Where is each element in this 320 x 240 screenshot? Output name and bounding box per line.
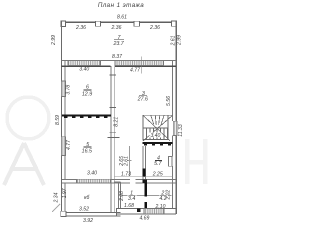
svg-text:3.52: 3.52 <box>79 206 89 212</box>
wall kb|room1 extra lines <box>114 182 120 208</box>
dashed wall below stair <box>143 142 173 145</box>
svg-text:2.02: 2.02 <box>166 190 172 201</box>
wall A below room 7 <box>62 60 177 66</box>
room 1 label <box>128 190 137 203</box>
svg-text:2.61: 2.61 <box>170 35 176 46</box>
corner pier bottom-left <box>61 211 66 216</box>
svg-text:3.40: 3.40 <box>87 170 97 176</box>
svg-text:2.34: 2.34 <box>54 192 60 203</box>
window left wall room 5 <box>61 137 65 156</box>
watermark circle <box>7 97 49 139</box>
corridor horizontal dim line <box>114 176 172 178</box>
stair dimension 3.40 <box>149 133 161 139</box>
svg-text:1.97: 1.97 <box>62 188 68 198</box>
room 5 label <box>82 142 92 154</box>
window band wall A left <box>68 61 101 66</box>
right wall inner line <box>172 60 174 208</box>
window left wall room 6 <box>61 81 65 97</box>
svg-text:2.36: 2.36 <box>75 25 86 31</box>
dashed wall rooms 6|5 <box>62 115 111 118</box>
corner pier top-right <box>172 21 177 26</box>
rooms 1-2 dim line <box>120 195 171 197</box>
right wall outer line <box>175 21 177 214</box>
svg-text:16.5: 16.5 <box>82 148 92 154</box>
staircase <box>143 115 173 141</box>
corridor right wall <box>143 146 146 180</box>
left wall inner line <box>64 60 66 211</box>
extension line at 4.77 <box>140 57 142 74</box>
svg-text:2.36: 2.36 <box>111 25 122 31</box>
black wall rooms 1|2 <box>144 183 147 209</box>
room 4 label <box>154 156 162 167</box>
svg-text:6: 6 <box>86 84 89 90</box>
watermark letter H <box>187 139 205 184</box>
svg-text:План 1 этажа: План 1 этажа <box>98 2 144 9</box>
svg-text:8.37: 8.37 <box>112 54 122 60</box>
svg-text:2.36: 2.36 <box>149 25 160 31</box>
svg-text:4.77: 4.77 <box>66 140 72 150</box>
room 2 label <box>159 190 168 203</box>
door leaf black <box>142 169 145 177</box>
window W1 top wall <box>96 21 101 26</box>
black segment near corridor wall <box>143 179 147 183</box>
window W2 top wall <box>134 21 139 26</box>
wall B ticks <box>108 75 120 138</box>
room 3 label <box>137 91 148 103</box>
left wall outer line <box>61 21 63 212</box>
room 6 label <box>82 84 92 97</box>
svg-text:27.6: 27.6 <box>137 97 148 103</box>
window band bottom wall <box>144 209 164 214</box>
corner pier top-left <box>61 21 66 26</box>
svg-text:2.61: 2.61 <box>124 156 130 167</box>
dim diagonal tick bottom-left <box>52 204 60 212</box>
top wall <box>61 21 176 23</box>
svg-text:2.99: 2.99 <box>51 35 57 46</box>
bottom-left wall <box>62 212 121 216</box>
svg-text:5.56: 5.56 <box>166 96 172 106</box>
svg-text:5.7: 5.7 <box>154 161 162 167</box>
svg-text:3.92: 3.92 <box>83 218 93 224</box>
wall B between rooms 6 and 3 <box>111 66 114 212</box>
svg-text:2.99: 2.99 <box>177 35 183 46</box>
svg-text:8.21: 8.21 <box>114 117 120 127</box>
svg-text:3.78: 3.78 <box>65 85 71 95</box>
bottom-right wall <box>116 208 176 215</box>
svg-text:23.7: 23.7 <box>112 41 124 47</box>
window band wall A right <box>115 61 164 66</box>
svg-text:4.69: 4.69 <box>139 216 149 222</box>
svg-text:3.4: 3.4 <box>128 196 135 202</box>
door right wall room 4 <box>169 156 172 166</box>
watermark letter A <box>4 143 44 185</box>
room 7 label <box>112 35 124 47</box>
corridor vertical dim line <box>128 146 132 176</box>
svg-text:кб: кб <box>84 195 89 201</box>
svg-text:3.40: 3.40 <box>150 133 160 139</box>
svg-text:8.61: 8.61 <box>117 15 127 21</box>
svg-text:11.33: 11.33 <box>178 124 184 137</box>
svg-text:8.59: 8.59 <box>55 115 61 125</box>
svg-text:4.77: 4.77 <box>130 67 140 73</box>
black segment bottom wall <box>137 208 141 211</box>
svg-text:2.08: 2.08 <box>119 191 125 202</box>
window band wall 5|kb <box>77 179 111 183</box>
bottom rooms top wall <box>62 180 176 183</box>
svg-text:12.9: 12.9 <box>82 91 92 97</box>
svg-text:3.40: 3.40 <box>79 66 89 72</box>
window right wall stair landing <box>173 121 177 135</box>
